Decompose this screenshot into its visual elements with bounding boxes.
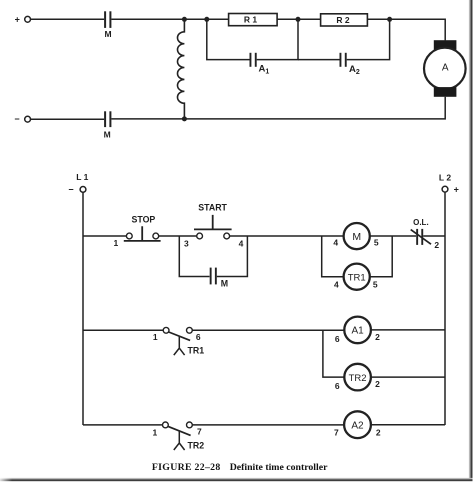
svg-text:L 1: L 1 (76, 172, 88, 182)
branch wire node B down to contact A1 (207, 19, 250, 59)
wire contact A2 to node D drop (347, 19, 390, 59)
node B (junction, tap to contact A1 branch) (204, 17, 209, 22)
node D (junction after R2) (387, 17, 392, 22)
svg-text:L 2: L 2 (439, 173, 451, 183)
page edge shadow right (469, 0, 473, 481)
svg-text:O.L.: O.L. (413, 218, 429, 227)
contact TR2 (timed closing) (163, 422, 205, 451)
wire resistor R1 to node C (277, 18, 298, 20)
svg-text:2: 2 (375, 379, 380, 389)
svg-text:2: 2 (375, 332, 380, 342)
rail L2 (444, 192, 446, 425)
svg-text:4: 4 (334, 280, 339, 290)
wire node B to resistor R1 (207, 18, 229, 20)
node E (junction bottom of field coil) (182, 116, 187, 121)
svg-text:A: A (442, 62, 449, 73)
svg-text:+: + (15, 14, 20, 24)
coil A2 (accelerating contactor) (344, 411, 371, 438)
svg-text:6: 6 (335, 334, 340, 344)
svg-text:STOP: STOP (132, 214, 156, 224)
wire rail L1 to STOP (83, 235, 126, 237)
wire contact A1 to node C drop (257, 19, 298, 59)
terminal - (negative supply) (14, 114, 30, 124)
resistor R2 (321, 14, 368, 26)
wire node C to resistor R2 (298, 18, 321, 20)
svg-text:−: − (14, 114, 19, 124)
wire armature bottom to negative lead (111, 97, 445, 119)
contact M (bottom, normally open) (104, 111, 112, 139)
node A (junction top of field coil) (182, 17, 187, 22)
wire START to coil M (230, 235, 344, 237)
svg-text:7: 7 (334, 428, 339, 438)
svg-text:FIGURE 22–28: FIGURE 22–28 (152, 462, 221, 473)
svg-text:1: 1 (114, 238, 119, 248)
svg-text:Definite time controller: Definite time controller (230, 462, 328, 473)
coil TR1 (timing relay) (344, 264, 370, 290)
svg-text:1: 1 (153, 427, 158, 437)
svg-text:A1: A1 (351, 326, 364, 337)
svg-text:M: M (104, 130, 111, 140)
wire positive lead to contact M (31, 18, 105, 20)
branch wire coil TR1 right (370, 236, 392, 277)
rail L1 (82, 192, 84, 425)
wire node D to armature top (390, 19, 446, 40)
wire node A to node B (184, 18, 206, 20)
terminal + (positive supply) (15, 14, 31, 24)
coil M (motor starter) (344, 223, 370, 249)
wire overload to rail L2 (423, 235, 445, 237)
seal-in branch wire left (179, 236, 209, 277)
node C (junction between R1 and R2) (296, 17, 301, 22)
svg-text:4: 4 (333, 238, 338, 248)
svg-text:R 2: R 2 (336, 15, 350, 25)
motor armature A (424, 40, 466, 97)
wire terminal minus to contact M bottom (31, 118, 105, 120)
svg-text:A2: A2 (351, 421, 364, 432)
wire coil A1 to rail L2 (371, 329, 445, 331)
wire rail L1 to contact TR1 (83, 329, 163, 331)
svg-text:3: 3 (184, 238, 189, 248)
wire contact TR2 to coil A2 (192, 424, 344, 426)
wire coil A2 to rail L2 (371, 424, 445, 426)
branch wire to coil TR1 left (322, 236, 344, 277)
svg-text:M: M (104, 29, 111, 39)
wire resistor R2 to node D (367, 18, 389, 20)
wire node C drop to contact A2 (298, 59, 340, 61)
contact M (seal-in, normally open) (210, 268, 228, 289)
page edge shadow bottom (0, 478, 473, 481)
svg-text:6: 6 (196, 332, 201, 342)
caption figure title (152, 462, 328, 473)
svg-text:R 1: R 1 (244, 15, 258, 25)
svg-text:TR2: TR2 (349, 373, 367, 384)
contact A1 (shorting contact across R1) (250, 53, 270, 76)
shunt field coil (177, 19, 184, 119)
contact M (top, normally open) (104, 11, 111, 39)
svg-text:4: 4 (239, 238, 244, 248)
svg-text:2: 2 (434, 240, 439, 250)
svg-text:TR2: TR2 (187, 441, 204, 451)
svg-text:TR1: TR1 (187, 346, 204, 356)
wire coil TR2 to rail L2 (371, 376, 445, 378)
svg-text:5: 5 (374, 238, 379, 248)
wire coil M to overload (370, 235, 416, 237)
svg-text:7: 7 (197, 427, 202, 437)
svg-text:1: 1 (153, 332, 158, 342)
wire STOP to START (159, 235, 197, 237)
svg-text:START: START (198, 202, 227, 212)
svg-text:M: M (352, 231, 361, 243)
svg-text:TR1: TR1 (348, 272, 366, 283)
resistor R1 (229, 14, 278, 26)
svg-text:5: 5 (373, 280, 378, 290)
svg-text:2: 2 (376, 428, 381, 438)
overload O.L. (411, 218, 431, 245)
svg-text:6: 6 (335, 381, 340, 391)
svg-text:−: − (68, 184, 73, 194)
branch wire to coil TR2 (323, 330, 344, 377)
contact TR1 (timed closing) (163, 327, 204, 355)
pushbutton STOP (normally closed) (124, 214, 161, 241)
contact A2 (shorting contact across R2) (340, 53, 360, 76)
coil A1 (accelerating contactor) (344, 317, 371, 344)
seal-in branch wire right (217, 236, 248, 277)
svg-text:M: M (221, 279, 228, 289)
wire contact TR1 to coil A1 (192, 329, 344, 331)
pushbutton START (normally open) (194, 202, 232, 239)
wire contact M to node A (111, 18, 184, 20)
terminal L2 (439, 173, 459, 195)
terminal L1 (68, 172, 88, 194)
coil TR2 (timing relay) (344, 364, 371, 391)
svg-text:+: + (454, 184, 459, 194)
wire rail L1 to contact TR2 (83, 424, 163, 426)
